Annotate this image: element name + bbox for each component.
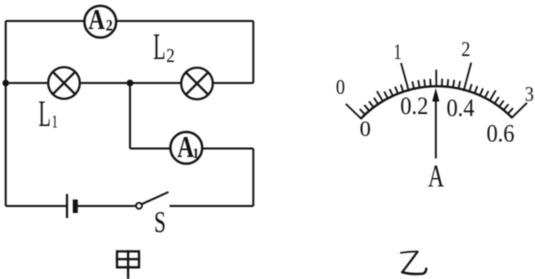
svg-text:3: 3 bbox=[525, 83, 534, 107]
svg-text:L: L bbox=[39, 94, 51, 135]
wire left bbox=[5, 21, 7, 206]
svg-text:S: S bbox=[154, 204, 166, 239]
svg-text:2: 2 bbox=[106, 17, 113, 34]
wire A1 row bbox=[130, 148, 253, 150]
wire switch to right bbox=[170, 205, 254, 207]
wire right upper bbox=[252, 21, 254, 83]
wire top bbox=[6, 20, 254, 22]
svg-text:0.6: 0.6 bbox=[486, 120, 514, 147]
wire middle vertical bbox=[129, 83, 131, 149]
lamp L1 bbox=[48, 67, 80, 99]
node junction middle bbox=[127, 80, 134, 87]
label jia (CJK 甲) drawn as strokes bbox=[117, 251, 139, 278]
svg-text:2: 2 bbox=[461, 38, 470, 62]
svg-text:A: A bbox=[88, 3, 105, 35]
svg-text:A: A bbox=[177, 130, 194, 164]
node junction left bbox=[2, 80, 9, 87]
needle bbox=[432, 88, 439, 159]
wire lamp row bbox=[6, 82, 254, 84]
meter scale arc bbox=[361, 86, 512, 118]
svg-text:0: 0 bbox=[336, 76, 345, 100]
wire battery to switch bbox=[78, 205, 137, 207]
switch S bbox=[136, 192, 169, 209]
svg-text:L: L bbox=[153, 27, 165, 68]
svg-text:A: A bbox=[428, 159, 444, 194]
lamp L2 bbox=[181, 68, 213, 100]
ammeter A2 bbox=[84, 3, 116, 37]
svg-text:0: 0 bbox=[360, 116, 371, 141]
svg-text:1: 1 bbox=[394, 40, 402, 64]
wire bottom left bbox=[6, 205, 66, 207]
battery cell bbox=[67, 194, 75, 218]
scale ticks bbox=[346, 63, 527, 120]
svg-text:1: 1 bbox=[52, 112, 58, 132]
label yi (CJK 乙) drawn as strokes bbox=[401, 252, 427, 274]
ammeter A1 bbox=[170, 130, 202, 164]
svg-text:0.4: 0.4 bbox=[446, 95, 474, 122]
svg-text:2: 2 bbox=[166, 45, 175, 68]
wire right lower bbox=[252, 149, 254, 207]
svg-text:0.2: 0.2 bbox=[400, 93, 428, 120]
svg-text:1: 1 bbox=[193, 145, 200, 162]
